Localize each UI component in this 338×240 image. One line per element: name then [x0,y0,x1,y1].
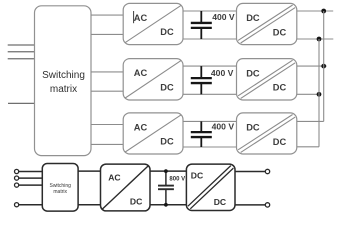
wire terminal T4 to switching matrix [19,204,43,206]
svg-text:DC: DC [160,82,174,92]
svg-text:400 V: 400 V [211,68,234,78]
svg-text:400 V: 400 V [212,12,235,22]
wire U3 to U6 (negative) [183,146,237,148]
capacitor C1 [191,11,212,39]
wire phase input a [8,44,35,46]
svg-text:Switching: Switching [49,183,71,189]
input terminal T3 [15,183,19,187]
wire neutral input [8,102,35,104]
wire U7 to U8 (negative) [150,204,186,206]
wire terminal T2 to switching matrix [19,177,43,179]
svg-text:AC: AC [134,68,148,78]
svg-text:DC: DC [246,68,260,78]
svg-text:AC: AC [108,173,120,183]
junction dot bus- row1 [317,37,322,42]
wire matrix to AC-DC U3 (upper) [91,124,123,126]
wire matrix to AC-DC U7 (upper) [78,170,100,172]
DC bus - (vertical) [318,39,320,147]
svg-text:DC: DC [273,27,287,37]
DC-DC converter U5 [237,59,297,100]
wire U8 negative output [235,204,265,206]
output terminal T6 [265,203,269,207]
switching matrix (single converter version) [42,164,78,212]
wire terminal T1 to switching matrix [19,171,43,173]
junction dot bus+ row2 [321,64,326,69]
junction dot C4 top [164,169,168,173]
input terminal T1 [15,169,19,173]
svg-text:DC: DC [246,13,260,23]
wire U1 to U4 (positive) [183,10,237,12]
AC-DC converter U7 [101,164,151,211]
wire matrix to AC-DC U2 (lower) [91,90,123,92]
wire phase input c [8,58,35,60]
svg-text:Switching: Switching [42,70,85,81]
wire U4 negative output to DC bus - [297,38,334,40]
wire terminal T3 to switching matrix [19,184,43,186]
wire U2 to U5 (positive) [183,65,237,67]
capacitor C4 [158,171,174,205]
capacitor C2 [191,66,212,94]
output terminal T5 [265,169,269,173]
wire U3 to U6 (positive) [183,120,237,122]
DC-DC converter U6 [237,113,297,154]
wire matrix to AC-DC U1 (upper) [91,14,123,16]
AC-DC converter U2 [123,59,183,100]
AC-DC converter U1 [123,3,183,44]
value label 400 V (C1) [212,12,235,22]
svg-text:400 V: 400 V [212,122,235,132]
wire U4 positive output to DC bus + [297,10,333,12]
value label 800 V (C4) [169,176,185,182]
wire U1 to U4 (negative) [183,38,237,40]
junction dot C4 bottom [164,203,168,207]
input terminal T2 [15,176,19,180]
wire U6 negative output to DC bus - [297,146,319,148]
junction dot bus+ row1 [321,9,326,14]
value label 400 V (C2) [211,68,234,78]
svg-text:DC: DC [246,123,260,133]
wire matrix to AC-DC U7 (lower) [78,204,100,206]
AC-DC converter U3 [123,113,183,154]
svg-text:AC: AC [134,13,148,23]
svg-text:DC: DC [160,27,174,37]
wire U5 positive output to DC bus + [297,65,327,67]
svg-text:DC: DC [273,83,287,93]
svg-text:800 V: 800 V [169,176,185,182]
wire matrix to AC-DC U3 (lower) [91,143,123,145]
svg-text:DC: DC [130,196,142,206]
svg-text:matrix: matrix [53,189,67,195]
wire U7 to U8 (positive) [150,170,186,172]
junction dot bus- row2 [317,92,322,97]
switching matrix (main) [35,6,92,156]
svg-text:matrix: matrix [50,84,77,95]
wire matrix to AC-DC U1 (lower) [91,33,123,35]
DC bus + (vertical) [323,11,325,121]
svg-text:DC: DC [191,171,203,181]
svg-text:DC: DC [160,137,174,147]
svg-text:AC: AC [134,122,148,132]
svg-text:DC: DC [273,137,287,147]
wire matrix to AC-DC U2 (upper) [91,71,123,73]
svg-text:DC: DC [214,197,226,207]
value label 400 V (C3) [212,122,235,132]
DC-DC converter U8 [186,164,235,210]
wire U2 to U5 (negative) [183,93,237,95]
wire U5 negative output to DC bus - [297,93,319,95]
wire U8 positive output [235,171,265,173]
wire phase input b [8,51,35,53]
wire U6 positive output to DC bus + [297,120,324,122]
capacitor C3 [191,121,212,147]
input terminal T4 [15,203,19,207]
DC-DC converter U4 [237,3,297,44]
